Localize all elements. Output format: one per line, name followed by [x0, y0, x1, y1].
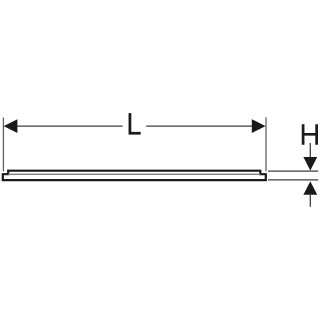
- arrowhead L right: [252, 119, 266, 133]
- profile inner edge line: [8, 173, 260, 175]
- extension line left (profile left end): [2, 118, 4, 172]
- arrowhead H up: [303, 181, 317, 195]
- dimension line L left segment: [8, 125, 123, 127]
- dimension line H upper tail: [309, 143, 311, 168]
- dimension line L right segment: [146, 125, 261, 127]
- dimension line H lower tail: [309, 194, 311, 207]
- arrowhead L left: [4, 119, 18, 133]
- profile outline (stepped bar, side view): [3, 171, 266, 180]
- arrowhead H down: [303, 157, 317, 171]
- extension line H top: [268, 170, 318, 172]
- extension line right (profile right end): [265, 117, 267, 171]
- label H: [302, 124, 318, 145]
- label L: [129, 113, 141, 135]
- extension line H bottom: [268, 179, 318, 181]
